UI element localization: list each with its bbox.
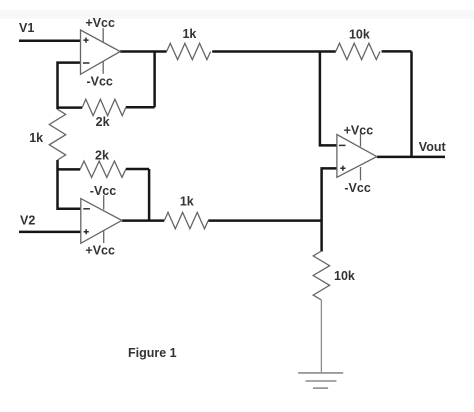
svg-text:Vout: Vout — [419, 140, 447, 154]
svg-text:-Vcc: -Vcc — [90, 184, 116, 198]
svg-text:+Vcc: +Vcc — [344, 123, 374, 137]
svg-text:2k: 2k — [95, 149, 109, 163]
svg-text:-Vcc: -Vcc — [344, 181, 370, 195]
svg-text:2k: 2k — [96, 115, 110, 129]
svg-text:V1: V1 — [19, 21, 34, 35]
svg-text:1k: 1k — [29, 131, 43, 145]
svg-text:10k: 10k — [349, 27, 370, 41]
svg-text:Figure 1: Figure 1 — [128, 346, 177, 360]
svg-text:V2: V2 — [20, 214, 35, 228]
svg-text:+Vcc: +Vcc — [85, 16, 115, 30]
svg-text:1k: 1k — [182, 27, 196, 41]
svg-text:1k: 1k — [180, 195, 194, 209]
svg-text:-Vcc: -Vcc — [86, 75, 112, 89]
svg-text:+Vcc: +Vcc — [85, 243, 115, 257]
svg-text:10k: 10k — [334, 269, 355, 283]
